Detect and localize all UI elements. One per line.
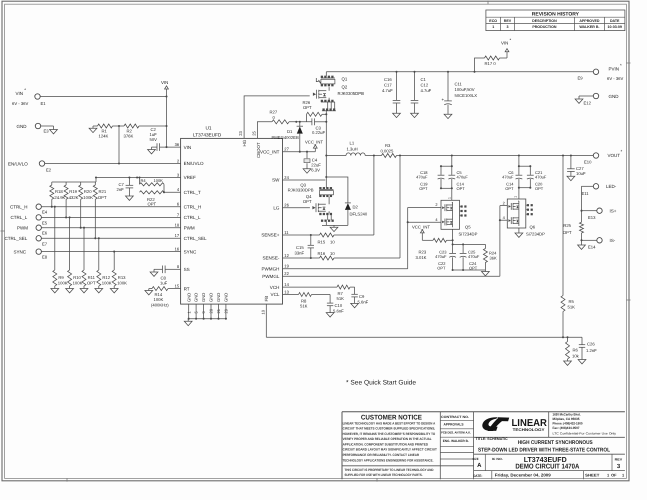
wire E14 to node	[582, 239, 597, 241]
transistor Q6 Si7234DP	[507, 196, 545, 237]
svg-text:100K: 100K	[73, 280, 83, 285]
svg-text:E5: E5	[42, 220, 48, 225]
U1 top pin names	[238, 131, 269, 302]
svg-text:R27: R27	[270, 110, 278, 115]
capacitor C6 470uF	[502, 166, 522, 191]
capacitor C23 470uF	[435, 244, 456, 270]
resistor R17 0	[475, 52, 508, 72]
svg-text:GND: GND	[194, 293, 199, 302]
terminal E14 IS-	[588, 238, 616, 250]
terminal E3 GND	[17, 123, 50, 133]
wire E6 to U1	[41, 227, 180, 229]
svg-text:10: 10	[330, 240, 335, 245]
svg-text:R17 0: R17 0	[485, 61, 497, 66]
ground for R6	[564, 361, 572, 365]
svg-text:10uF: 10uF	[576, 171, 586, 176]
capacitor C4 22uF 6.3V	[304, 152, 321, 173]
border zone tick bottom	[67, 478, 377, 481]
resistor R23 3.01K	[416, 238, 453, 260]
wire FB line	[266, 336, 582, 338]
svg-text:50V: 50V	[150, 137, 158, 142]
transistor Q5 Si7234DP	[441, 197, 478, 237]
svg-text:SW: SW	[272, 178, 280, 183]
svg-text:C16: C16	[384, 77, 392, 82]
svg-text:100K: 100K	[83, 195, 93, 200]
svg-text:IC NO.: IC NO.	[492, 457, 503, 461]
svg-text:THIS CIRCUIT IS PROPRIETARY TO: THIS CIRCUIT IS PROPRIETARY TO LINEAR TE…	[345, 468, 434, 472]
svg-text:100K: 100K	[154, 178, 164, 183]
svg-text:C26: C26	[587, 341, 595, 346]
wire C8 to pin 8 SS	[165, 268, 181, 270]
svg-text:12: 12	[284, 253, 289, 258]
svg-text:(400KHz): (400KHz)	[151, 303, 169, 308]
wire Q5 gate pins	[407, 202, 441, 223]
wire R2 to VIN rail	[139, 125, 168, 127]
svg-text:100K: 100K	[102, 280, 112, 285]
diode D2 DFLS240	[345, 203, 368, 226]
svg-text:24: 24	[284, 175, 289, 180]
svg-text:LINEAR TECHNOLOGY HAS MADE A B: LINEAR TECHNOLOGY HAS MADE A BEST EFFORT…	[343, 421, 436, 425]
terminal E1 VIN	[12, 88, 46, 106]
svg-text:Phone: (408)432-1900: Phone: (408)432-1900	[553, 422, 583, 426]
svg-text:10-03-09: 10-03-09	[608, 25, 622, 29]
power flag VCC_INT at Q5	[412, 225, 430, 241]
wire R4 to CTRL_T	[163, 184, 165, 193]
svg-text:E4: E4	[42, 210, 48, 215]
svg-text:C1: C1	[421, 77, 427, 82]
ground for IS-	[578, 240, 586, 249]
svg-text:10: 10	[330, 251, 335, 256]
svg-text:51K: 51K	[300, 304, 308, 309]
wire VOUT to Q6 caps	[518, 156, 531, 168]
node VIN rail junction E1	[165, 95, 167, 97]
svg-text:EN/UVLO: EN/UVLO	[8, 161, 28, 166]
ground at E3	[50, 130, 58, 134]
capacitor C11 100uF 50V	[442, 72, 478, 114]
svg-text:PWM: PWM	[17, 225, 28, 230]
svg-text:5.6nF: 5.6nF	[358, 299, 369, 304]
capacitor C27 10uF	[567, 156, 586, 177]
wire E5 to U1	[41, 216, 180, 218]
svg-text:C9: C9	[359, 294, 365, 299]
wire HG to gate	[244, 96, 310, 138]
svg-text:1: 1	[447, 197, 451, 199]
svg-text:50CE100LX: 50CE100LX	[455, 93, 478, 98]
wire R27 to boost node	[289, 121, 312, 123]
svg-text:2: 2	[503, 200, 505, 205]
svg-text:HG: HG	[242, 139, 247, 146]
wire Q5 source down	[452, 229, 454, 245]
ground for Q6	[515, 233, 523, 237]
IC U1 LT3743EUFD body	[181, 126, 283, 304]
svg-text:CTRL_L: CTRL_L	[11, 215, 28, 220]
svg-text:ECO: ECO	[489, 19, 497, 23]
svg-text:27: 27	[284, 147, 289, 152]
ground for C11	[444, 114, 452, 118]
wire E7 to U1	[41, 237, 180, 239]
svg-text:C12: C12	[421, 83, 429, 88]
wire VIN rail vertical	[166, 97, 168, 148]
wire divider tap down	[118, 126, 120, 165]
size ic rev row	[473, 454, 625, 470]
wire Q5 node to caps	[453, 243, 486, 245]
power flag VIN input	[161, 80, 168, 97]
transistor Q4 OPT	[303, 194, 348, 226]
resistor R2 376K	[124, 124, 140, 139]
wire L1 to R3	[374, 155, 382, 157]
svg-text:36K: 36K	[490, 256, 497, 261]
wire R3 to VOUT bus	[397, 154, 402, 156]
wire R15 to R3 left	[334, 156, 374, 236]
svg-text:VCC_INT: VCC_INT	[260, 149, 280, 154]
svg-text:REV: REV	[504, 19, 512, 23]
wire SW pin to node	[283, 122, 328, 180]
svg-text:OPT: OPT	[303, 199, 312, 204]
terminal E10 VOUT	[584, 149, 623, 165]
resistor R14 100K 400KHz	[151, 287, 169, 308]
svg-text:*: *	[510, 38, 512, 43]
svg-text:* See Quick Start Guide: * See Quick Start Guide	[346, 380, 416, 387]
capacitor C1 C12 4.7uF	[411, 72, 432, 113]
wire VCH line	[283, 286, 338, 288]
svg-text:*: *	[24, 88, 26, 93]
svg-text:TITLE: SCHEMATIC: TITLE: SCHEMATIC	[476, 437, 508, 441]
svg-text:15: 15	[175, 284, 180, 289]
svg-text:DATE: DATE	[610, 19, 620, 23]
svg-text:CBOOT: CBOOT	[256, 142, 261, 158]
wire Q5 caps bottom	[440, 187, 453, 200]
ground for C10	[326, 313, 334, 317]
note see quick start guide	[346, 380, 416, 387]
svg-text:PWMGH: PWMGH	[261, 266, 279, 271]
ground for R14	[145, 289, 153, 295]
svg-text:C15: C15	[296, 245, 304, 250]
ground for R1	[89, 126, 97, 133]
svg-text:R12: R12	[102, 275, 110, 280]
revision history table	[486, 10, 625, 31]
svg-text:VOUT: VOUT	[608, 153, 621, 158]
capacitor C2 1uF 50V	[150, 127, 160, 151]
svg-text:4.7uF: 4.7uF	[382, 88, 393, 93]
capacitor C26 1.2nF	[579, 337, 597, 359]
svg-text:SENSE-: SENSE-	[262, 256, 279, 261]
title block outline	[342, 412, 625, 480]
wire Q6 source down	[518, 228, 520, 233]
svg-text:R25: R25	[563, 223, 571, 228]
svg-text:OPT: OPT	[87, 280, 96, 285]
svg-text:C17: C17	[384, 83, 392, 88]
svg-text:GND: GND	[186, 293, 191, 302]
svg-text:DFLS240: DFLS240	[350, 212, 368, 217]
ground for Q3 Q4	[330, 225, 338, 231]
svg-text:E14: E14	[588, 245, 596, 250]
ground for C2	[148, 147, 157, 154]
svg-text:HOWEVER, IT REMAINS THE CUSTOM: HOWEVER, IT REMAINS THE CUSTOMER"S RESPO…	[343, 432, 436, 436]
address text	[553, 412, 617, 435]
svg-text:LED-: LED-	[606, 184, 617, 189]
resistor R25 OPT	[563, 222, 584, 241]
svg-text:E1: E1	[41, 101, 47, 106]
wire R16 to R3 right	[334, 156, 400, 259]
inductor L1 1.3uH	[326, 141, 374, 156]
wire E11 to IS node	[580, 186, 593, 222]
svg-text:C10: C10	[335, 303, 343, 308]
svg-text:124K: 124K	[99, 134, 109, 139]
svg-text:R15: R15	[318, 240, 326, 245]
wire R1-R2 junction	[113, 125, 125, 127]
svg-text:OPT: OPT	[469, 265, 478, 270]
resistor R24 36K	[483, 244, 497, 270]
svg-text:VCC_INT: VCC_INT	[412, 225, 430, 230]
svg-text:51K: 51K	[568, 305, 576, 310]
svg-text:VCL: VCL	[271, 292, 280, 297]
U1 right pin names	[260, 147, 290, 298]
svg-text:Friday, December 04, 2009: Friday, December 04, 2009	[495, 473, 552, 478]
svg-text:R11: R11	[88, 275, 96, 280]
terminal E13 IS+	[588, 208, 617, 220]
svg-text:1630 McCarthy Blvd.: 1630 McCarthy Blvd.	[553, 412, 581, 416]
svg-text:CIRCUIT BOARD LAYOUT MAY SIGNI: CIRCUIT BOARD LAYOUT MAY SIGNIFICANTLY A…	[343, 448, 437, 452]
terminal E8 SYNC	[14, 249, 48, 260]
svg-text:22uF: 22uF	[311, 162, 321, 167]
svg-text:100K: 100K	[117, 280, 127, 285]
capacitor C7 2nF	[117, 178, 134, 197]
wire CBOOT up	[257, 122, 272, 139]
wire R19 to CTRL_L	[65, 199, 67, 218]
customer notice text	[343, 414, 437, 477]
power flag VIN top	[501, 38, 512, 52]
svg-text:SUPPLIED FOR USE WITH LINEAR T: SUPPLIED FOR USE WITH LINEAR TECHNOLOGY …	[345, 473, 423, 477]
wire E12 to ground	[575, 96, 593, 103]
svg-text:4.7uF: 4.7uF	[421, 88, 432, 93]
resistors R18 R19 R20 R21 pullups	[50, 182, 107, 200]
terminal E5 CTRL_L	[11, 215, 48, 226]
svg-text:IS+: IS+	[610, 208, 617, 213]
svg-text:E13: E13	[588, 215, 596, 220]
svg-text:RT: RT	[184, 286, 190, 291]
resistor R6 10k	[566, 337, 580, 361]
svg-text:OPT: OPT	[457, 186, 466, 191]
svg-text:+: +	[442, 97, 445, 102]
capacitor C16 C17 4.7uF	[382, 72, 400, 113]
svg-text:1uF: 1uF	[160, 280, 168, 285]
wire SENSE- line	[283, 257, 320, 259]
svg-text:APPROVED: APPROVED	[579, 19, 600, 23]
svg-text:REV: REV	[615, 457, 624, 461]
wire pin4 CTRL_T	[164, 191, 181, 193]
capacitor C10 5.6nF	[312, 295, 345, 314]
ground for C8	[150, 269, 162, 276]
capacitor C21 470uF	[527, 166, 547, 191]
svg-text:TECHNOLOGY APPLICATIONS ENGINE: TECHNOLOGY APPLICATIONS ENGINEERING FOR …	[343, 458, 434, 462]
svg-text:6V - 36V: 6V - 36V	[12, 101, 29, 106]
svg-text:R21: R21	[99, 189, 107, 194]
svg-text:GND: GND	[201, 293, 206, 302]
svg-text:22: 22	[284, 271, 289, 276]
border zone tick right upper	[626, 62, 630, 64]
wire E8 to U1	[41, 251, 180, 253]
svg-text:D1: D1	[287, 129, 293, 134]
wire Q5 caps gnd bus	[452, 269, 486, 271]
svg-text:33nF: 33nF	[295, 251, 305, 256]
wire E1 to VIN rail	[40, 96, 166, 98]
svg-text:PERFORMANCE OR RELIABILITY. C: PERFORMANCE OR RELIABILITY. CONTACT LINE…	[343, 453, 420, 457]
svg-text:VCC_INT: VCC_INT	[305, 140, 323, 145]
diode D1 PMEG4002EB	[272, 122, 304, 152]
wire pin3 VREF	[95, 176, 181, 178]
wire E2 to pin 2	[45, 163, 181, 165]
svg-text:E8: E8	[42, 255, 48, 260]
transistor Q2 RJK0305DPB	[313, 87, 336, 122]
svg-text:Si7234DP: Si7234DP	[526, 232, 545, 237]
wire U1 ground pins bus	[188, 304, 227, 320]
svg-text:SHEET: SHEET	[585, 473, 600, 478]
resistor R27 0	[270, 110, 290, 124]
resistor R15 10	[318, 233, 336, 245]
svg-text:R6: R6	[573, 347, 579, 352]
svg-text:470uF: 470uF	[502, 174, 514, 179]
svg-text:R20: R20	[84, 189, 92, 194]
wire Q6 caps bottom	[518, 187, 531, 199]
wire PWMGH to Q5 gates	[283, 208, 408, 269]
svg-text:18: 18	[175, 223, 180, 228]
svg-text:VIN: VIN	[501, 41, 508, 46]
svg-text:6V - 36V: 6V - 36V	[607, 76, 624, 81]
resistor R9 100K pulldown	[51, 206, 68, 293]
svg-text:1.3uH: 1.3uH	[347, 147, 358, 152]
wire C2 to pin 36	[160, 146, 181, 148]
wire VREF to pullup bus	[52, 178, 96, 183]
ground for C1	[411, 113, 419, 117]
resistor R3 0.0025	[381, 143, 397, 158]
capacitor C5 470uF	[448, 166, 468, 191]
svg-text:E2: E2	[46, 167, 52, 172]
svg-text:R13: R13	[118, 275, 126, 280]
terminal E7 CTRL_SEL	[5, 236, 48, 247]
wire R20 to PWM	[80, 199, 82, 228]
svg-text:OPT: OPT	[303, 105, 312, 110]
svg-text:VERIFY PROPER AND RELIABLE OPE: VERIFY PROPER AND RELIABLE OPERATION IN …	[343, 437, 432, 441]
svg-text:PMEG4002EB: PMEG4002EB	[272, 135, 299, 140]
svg-text:0.0025: 0.0025	[381, 148, 394, 153]
svg-text:SYNC: SYNC	[184, 249, 197, 254]
svg-text:Q2: Q2	[342, 84, 348, 89]
svg-text:GND: GND	[216, 293, 221, 302]
svg-text:GND: GND	[17, 124, 28, 129]
svg-text:L1: L1	[350, 141, 355, 146]
svg-text:3.01K: 3.01K	[416, 255, 427, 260]
svg-text:Q5: Q5	[465, 224, 471, 229]
svg-text:19: 19	[284, 264, 289, 269]
resistor R11 OPT pulldown	[80, 227, 96, 293]
svg-text:R10: R10	[73, 275, 81, 280]
wire PVIN bus	[326, 71, 593, 73]
svg-text:CONTRACT NO.: CONTRACT NO.	[441, 415, 469, 419]
resistor R10 100K pulldown	[66, 216, 83, 293]
svg-text:1: 1	[514, 196, 518, 198]
svg-text:PCB DES. ANTONI A.K.: PCB DES. ANTONI A.K.	[441, 431, 471, 435]
svg-text:R9: R9	[58, 275, 64, 280]
label Q1 Q2	[338, 76, 365, 96]
terminal E2 EN/UVLO	[8, 161, 52, 173]
svg-text:13: 13	[284, 289, 289, 294]
svg-text:SS: SS	[184, 267, 190, 272]
svg-text:36: 36	[175, 142, 180, 147]
svg-text:51K: 51K	[337, 296, 345, 301]
svg-text:R19: R19	[69, 189, 77, 194]
svg-text:Milpitas, CA 95035: Milpitas, CA 95035	[553, 417, 580, 421]
svg-text:PWMGL: PWMGL	[262, 274, 280, 279]
wire C3 to SW	[315, 121, 328, 123]
svg-text:R16: R16	[318, 251, 326, 256]
ground for C26	[578, 360, 586, 364]
svg-text:6.3V: 6.3V	[311, 168, 320, 173]
svg-text:1: 1	[492, 25, 494, 29]
svg-text:14: 14	[284, 282, 289, 287]
svg-text:432K: 432K	[69, 195, 79, 200]
resistor R4 100K	[138, 176, 164, 185]
svg-text:APPROVALS: APPROVALS	[444, 422, 465, 426]
svg-text:VIN: VIN	[184, 145, 192, 150]
svg-text:Fax: (408)434-0507: Fax: (408)434-0507	[553, 426, 580, 430]
date sheet row	[473, 471, 625, 480]
svg-text:CIRCUIT THAT MEETS CUSTOMER-SU: CIRCUIT THAT MEETS CUSTOMER-SUPPLIED SPE…	[343, 427, 436, 431]
svg-text:17: 17	[175, 233, 180, 238]
ground for Q5 stage	[482, 270, 490, 276]
svg-text:EN/UVLO: EN/UVLO	[184, 161, 204, 166]
wire Q6 gate pins	[499, 200, 507, 221]
svg-text:RJK0305DPB: RJK0305DPB	[338, 91, 365, 96]
border zone tick top	[487, 1, 489, 4]
svg-text:E10: E10	[584, 160, 592, 165]
svg-text:C11: C11	[455, 82, 463, 87]
terminal E9 PVIN	[578, 63, 624, 81]
title text	[476, 437, 611, 453]
svg-text:OPT: OPT	[419, 186, 428, 191]
wire E3 to ground	[41, 126, 54, 130]
ground for C27	[567, 176, 575, 180]
resistor R16 10	[318, 251, 336, 260]
svg-text:OPT: OPT	[535, 186, 544, 191]
power flag VCC_INT	[305, 140, 323, 152]
wire VOUT to Q5 caps	[440, 156, 453, 168]
svg-text:DATE:: DATE:	[473, 474, 482, 478]
svg-text:E3: E3	[44, 129, 50, 134]
svg-text:Si7234DP: Si7234DP	[459, 232, 478, 237]
resistor R22 OPT	[140, 191, 165, 207]
svg-text:R5: R5	[569, 299, 575, 304]
svg-text:LG: LG	[273, 205, 280, 210]
svg-text:GND: GND	[209, 293, 214, 302]
wire VOUT bus	[400, 154, 593, 156]
svg-text:D2: D2	[353, 204, 359, 209]
ground for C4	[303, 169, 311, 173]
ground for C9	[351, 303, 359, 307]
linear technology logo	[474, 412, 625, 438]
svg-text:VIN: VIN	[16, 91, 24, 96]
svg-text:R23: R23	[419, 250, 427, 255]
resistor R5 51K	[561, 156, 575, 338]
resistor R1 124K	[98, 124, 113, 139]
svg-text:2nF: 2nF	[117, 187, 125, 192]
svg-text:TECHNOLOGY: TECHNOLOGY	[513, 428, 546, 432]
svg-text:470uF: 470uF	[468, 254, 480, 259]
svg-text:STEP-DOWN LED DRIVER WITH THR: STEP-DOWN LED DRIVER WITH THREE-STATE CO…	[478, 447, 611, 453]
svg-text:DESCRIPTION: DESCRIPTION	[532, 19, 557, 23]
svg-text:PWM: PWM	[184, 225, 195, 230]
svg-text:Q6: Q6	[530, 224, 536, 229]
svg-text:26: 26	[284, 203, 289, 208]
